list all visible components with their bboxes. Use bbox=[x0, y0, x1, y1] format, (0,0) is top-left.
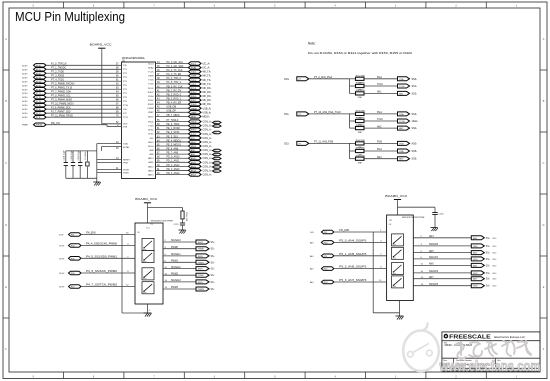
svg-text:R158 0R0: R158 0R0 bbox=[356, 118, 366, 120]
svg-text:SCH‹: SCH‹ bbox=[59, 246, 65, 248]
wire branch vertical group 3 bbox=[349, 143, 351, 158]
title block bbox=[442, 332, 540, 372]
wire net PGA to off-page connector bbox=[364, 148, 417, 153]
svg-text:R156 0R0: R156 0R0 bbox=[356, 111, 366, 113]
resistor R158 (DNF) / R159 bbox=[350, 118, 366, 127]
svg-text:USB_DM: USB_DM bbox=[167, 107, 177, 109]
svg-text:VDD: VDD bbox=[123, 124, 128, 126]
svg-text:AN12: AN12 bbox=[148, 165, 154, 168]
svg-text:AN3: AN3 bbox=[377, 156, 382, 159]
wire RESET to U1 pin 13 bbox=[97, 158, 131, 162]
resistor R154 (DNF) / R155 bbox=[350, 83, 366, 92]
svg-text:PWM1: PWM1 bbox=[171, 261, 179, 263]
svg-text:MDIO: MDIO bbox=[191, 116, 197, 118]
svg-text:CON_A‹: CON_A‹ bbox=[203, 161, 212, 164]
wire and off-page connector, U1 right pin 89 net PD_1_AN11 bbox=[148, 160, 211, 165]
svg-text:USBP: USBP bbox=[191, 112, 197, 114]
svg-text:SCK«: SCK« bbox=[22, 97, 28, 99]
wire and off-page connector, U1 right pin 80 net PE_0_TXD2 bbox=[148, 124, 212, 128]
wire and off-page connector, U1 right pin 46 net USB_DP bbox=[148, 111, 212, 115]
wire U3 GND pin to ground bbox=[399, 301, 401, 317]
wire and off-page connector, U1 right pin 35 net PC_1_I2C_SDA bbox=[148, 65, 210, 70]
svg-text:13aC‹: 13aC‹ bbox=[412, 120, 419, 123]
wire and off-page connector, U1 right pin 82 net PE_2_SCK1 bbox=[148, 132, 212, 136]
wire net TCLK to off-page connector bbox=[364, 84, 417, 88]
off-page connector and wire, U2 left pin 4 net P4_4_SS0/SCK0_PWM0 bbox=[59, 244, 135, 248]
svg-text:PWM3: PWM3 bbox=[171, 287, 179, 289]
svg-text:CON_A‹: CON_A‹ bbox=[203, 137, 212, 140]
svg-text:mux: mux bbox=[393, 273, 396, 275]
off-page connector and wire, U2 left pin 7 net P4_5_SS1/SD0_PWM1 bbox=[59, 256, 135, 260]
svg-text:VDDR: VDDR bbox=[123, 170, 129, 172]
ground (U2) bbox=[144, 313, 152, 317]
svg-text:SS‹: SS‹ bbox=[211, 242, 215, 244]
wire enable rail to ground (U2) bbox=[122, 235, 148, 314]
svg-text:mux: mux bbox=[143, 278, 146, 280]
svg-text:CON_A‹: CON_A‹ bbox=[203, 169, 212, 172]
resistor R164 10K bbox=[181, 208, 187, 222]
svg-text:PT_11_AN3_PGB: PT_11_AN3_PGB bbox=[314, 141, 334, 144]
svg-text:PE_1_RXD2: PE_1_RXD2 bbox=[167, 128, 181, 130]
svg-text:www.elecfans.com: www.elecfans.com bbox=[439, 359, 541, 375]
svg-text:SS4‹: SS4‹ bbox=[412, 127, 418, 130]
wire and off-page connector, U3 right pin 10 net SS2/LP2 bbox=[413, 271, 496, 275]
svg-text:SCL0: SCL0 bbox=[191, 64, 197, 66]
wire net PGA to off-page connector bbox=[364, 111, 417, 116]
svg-text:AN12: AN12 bbox=[191, 165, 197, 168]
svg-text:PWM0: PWM0 bbox=[171, 247, 179, 249]
svg-text:SS‹: SS‹ bbox=[486, 273, 490, 275]
wire and off-page connector, U1 right pin 43 net PB_3_RXD_1 bbox=[148, 98, 212, 102]
wire and off-page connector, U2 right pin 10 net PWM2 bbox=[163, 273, 215, 277]
svg-text:C: C bbox=[543, 162, 545, 165]
svg-text:TXD0: TXD0 bbox=[191, 80, 197, 82]
svg-text:SIGNAL2: SIGNAL2 bbox=[171, 266, 181, 269]
analog switch section S1 of U3 bbox=[392, 234, 404, 246]
svg-text:PB_0_RX_CLK: PB_0_RX_CLK bbox=[167, 86, 183, 88]
wire and off-page connector, U2 right pin 5 net SIGNAL1 bbox=[163, 253, 215, 258]
capacitor C102 bbox=[71, 149, 75, 178]
wire and off-page connector, U2 right pin 13 net PWM3 bbox=[163, 287, 215, 291]
off-page connector and wire, U1 left pin 60 net PT_3_RXD0 bbox=[22, 76, 128, 80]
svg-text:SS5‹: SS5‹ bbox=[412, 150, 418, 153]
svg-text:SCK«: SCK« bbox=[22, 85, 28, 87]
off-page connector group 1 input net PT_0_AN1_PGA bbox=[284, 76, 350, 81]
svg-text:SS2‹: SS2‹ bbox=[284, 143, 289, 145]
svg-text:PXI: PXI bbox=[71, 235, 75, 237]
power symbol BOARD_VCC (U3) bbox=[385, 194, 408, 203]
svg-text:PXI_EN0: PXI_EN0 bbox=[86, 233, 96, 235]
node GD mark bbox=[213, 125, 222, 128]
svg-text:SS‹: SS‹ bbox=[211, 256, 215, 258]
analog switch section S4 of U3 bbox=[392, 276, 404, 288]
wire and off-page connector, U1 right pin 91 net PD_3_AN13 bbox=[148, 168, 211, 173]
off-page connector and wire, U1 left pin 64 net PT_7_PWM2_SDA bbox=[22, 91, 128, 96]
svg-text:SS‹: SS‹ bbox=[211, 289, 215, 291]
svg-text:SS‹: SS‹ bbox=[486, 238, 490, 240]
svg-text:AS0‹: AS0‹ bbox=[412, 142, 418, 145]
svg-text:USBM: USBM bbox=[147, 108, 153, 110]
wire and off-page connector, U1 right pin 83 net PE_3_SS1 bbox=[150, 136, 212, 140]
svg-text:X1 4MHz: X1 4MHz bbox=[85, 151, 87, 160]
analog switch section S1 of U2 bbox=[142, 238, 154, 250]
svg-text:AD‹: AD‹ bbox=[310, 281, 314, 284]
wire net AN3 to off-page connector bbox=[364, 156, 417, 161]
svg-text:C160: C160 bbox=[439, 214, 445, 216]
svg-text:SCL0: SCL0 bbox=[148, 63, 154, 65]
capacitor C103 bbox=[78, 149, 82, 178]
off-page connector group 2 input net PT_10_AN2_PGA_TCLK bbox=[284, 111, 350, 116]
off-page connector and wire, U2 left pin 12 net P4_7_SS/TCK_PWM3 bbox=[59, 285, 135, 289]
svg-text:PJ_0_TTRCLK: PJ_0_TTRCLK bbox=[51, 64, 67, 66]
svg-text:RXD0: RXD0 bbox=[148, 96, 154, 98]
off-page connector and wire, U1 left pin 57 net PJ_0_TTRCLK bbox=[22, 64, 127, 68]
svg-text:AN7: AN7 bbox=[429, 276, 434, 279]
svg-text:BOARD_VCC: BOARD_VCC bbox=[90, 43, 113, 47]
svg-text:TXD2: TXD2 bbox=[148, 126, 154, 128]
wire VDDPLL to U1 pin 52 bbox=[102, 122, 128, 128]
svg-text:RXER: RXER bbox=[191, 104, 197, 106]
svg-text:CON_A‹: CON_A‹ bbox=[203, 121, 212, 124]
svg-text:AN4: AN4 bbox=[429, 235, 434, 238]
wire enable rail to ground (U3) bbox=[373, 232, 399, 313]
wire and off-page connector, U1 right pin 40 net PB_0_RX_CLK bbox=[148, 86, 212, 90]
svg-text:GD‹: GD‹ bbox=[493, 246, 497, 248]
wire and off-page connector, U1 right pin 81 net PE_1_RXD2 bbox=[148, 128, 212, 132]
wire and off-page connector, U2 right pin 6 net PWM1 bbox=[163, 260, 215, 264]
svg-text:MOSI: MOSI bbox=[191, 146, 197, 148]
svg-text:Electronics Europe Ltd: Electronics Europe Ltd bbox=[494, 335, 525, 339]
wire and off-page connector, U1 right pin 38 net PC_4_TXD_0 bbox=[148, 78, 211, 82]
svg-text:PT_10_PWM5_MOSI: PT_10_PWM5_MOSI bbox=[51, 104, 74, 106]
wire BOARD_VCC to U3 bbox=[398, 203, 436, 216]
MCU U1 bbox=[122, 57, 156, 178]
svg-text:SS‹: SS‹ bbox=[486, 253, 490, 255]
svg-text:R423 0R0: R423 0R0 bbox=[356, 125, 366, 127]
svg-text:PT_3_RXD0: PT_3_RXD0 bbox=[51, 76, 65, 78]
svg-text:PC_2_TX_CLK: PC_2_TX_CLK bbox=[167, 70, 183, 72]
svg-text:SDA0: SDA0 bbox=[191, 67, 197, 70]
wire net AN2 to off-page connector bbox=[364, 125, 417, 130]
svg-text:R154 0R0: R154 0R0 bbox=[356, 83, 366, 85]
svg-text:AD‹: AD‹ bbox=[310, 268, 314, 271]
svg-text:RXD1: RXD1 bbox=[148, 100, 154, 102]
svg-text:CON_A‹: CON_A‹ bbox=[203, 125, 212, 128]
svg-text:MDIO‹: MDIO‹ bbox=[203, 115, 210, 118]
svg-text:TCLK: TCLK bbox=[377, 84, 383, 86]
svg-text:PW_ON: PW_ON bbox=[51, 123, 60, 125]
svg-text:SS3‹: SS3‹ bbox=[412, 113, 418, 116]
wire and off-page connector, U1 right pin 34 net PC_0_I2C_SCL bbox=[148, 62, 210, 66]
svg-text:SIGN: SIGN bbox=[198, 282, 203, 284]
svg-text:RXER: RXER bbox=[148, 104, 154, 106]
svg-text:SCK«: SCK« bbox=[22, 81, 28, 83]
svg-text:GD‹: GD‹ bbox=[493, 238, 497, 240]
wire and off-page connector, U3 right pin 11 net AN6 bbox=[413, 263, 496, 268]
node GD mark bbox=[213, 162, 222, 165]
svg-text:SS‹: SS‹ bbox=[211, 275, 215, 277]
svg-text:SS2‹: SS2‹ bbox=[412, 92, 418, 95]
svg-text:CON_A‹: CON_A‹ bbox=[203, 141, 212, 144]
node GD mark bbox=[213, 131, 222, 134]
svg-text:CON_A‹: CON_A‹ bbox=[203, 129, 212, 132]
svg-text:AN5: AN5 bbox=[429, 250, 434, 253]
svg-text:GD‹: GD‹ bbox=[493, 259, 497, 261]
ground (U3) bbox=[396, 316, 404, 320]
svg-text:MII_TX‹: MII_TX‹ bbox=[203, 83, 212, 86]
svg-text:D: D bbox=[543, 224, 545, 227]
svg-text:AD‹: AD‹ bbox=[310, 241, 314, 244]
off-page connector and wire, U2 left pin 9 net P4_6_SS/SCK_PWM2 bbox=[59, 271, 135, 275]
svg-text:RXD2: RXD2 bbox=[148, 130, 154, 132]
svg-text:TXEN: TXEN bbox=[148, 76, 154, 78]
wire and off-page connector, U1 right pin 86 net PE_6_AN8 bbox=[149, 147, 211, 152]
ground (R164/C155) bbox=[179, 230, 187, 234]
svg-text:SCK«: SCK« bbox=[22, 101, 28, 103]
svg-text:PD_1_AN11: PD_1_AN11 bbox=[167, 160, 180, 163]
svg-text:XTAL: XTAL bbox=[123, 143, 129, 146]
wire and off-page connector, U1 right pin 45 net USB_DM bbox=[147, 107, 211, 111]
svg-text:PWM2: PWM2 bbox=[171, 273, 179, 275]
svg-text:PD_4_AN14: PD_4_AN14 bbox=[167, 172, 181, 175]
svg-text:D: D bbox=[5, 224, 7, 227]
svg-text:SS‹: SS‹ bbox=[211, 262, 215, 264]
svg-text:PT_TRCLK: PT_TRCLK bbox=[167, 120, 179, 122]
wire and off-page connector, U1 right pin 44 net PB_4_RX_ER bbox=[148, 102, 212, 106]
ground (oscillator) bbox=[93, 182, 101, 186]
svg-text:PGA: PGA bbox=[399, 150, 404, 153]
off-page connector and wire, U3 left pin 12 net P5_3_AN7_SS3/P3 bbox=[310, 279, 387, 284]
svg-text:PC_4_TXD_0: PC_4_TXD_0 bbox=[167, 78, 182, 80]
svg-text:TCLK: TCLK bbox=[191, 72, 197, 74]
svg-text:TXD2: TXD2 bbox=[191, 126, 197, 128]
svg-text:SN74CBTLV3257PWR: SN74CBTLV3257PWR bbox=[402, 217, 425, 219]
node GD mark bbox=[213, 153, 222, 156]
svg-text:AN1: AN1 bbox=[377, 91, 382, 94]
wire and off-page connector, U1 right pin 37 net PC_3_TX_EN bbox=[148, 74, 211, 78]
wire BOARD_VCC rail to U1 bbox=[101, 51, 103, 124]
svg-text:GD‹: GD‹ bbox=[493, 265, 497, 267]
off-page connector and wire, U1 left pin 67 net PT_10_PWM5_MOSI bbox=[22, 104, 129, 108]
svg-text:TXD1: TXD1 bbox=[148, 84, 154, 86]
svg-text:CON_A‹: CON_A‹ bbox=[203, 149, 212, 152]
svg-text:PT10: PT10 bbox=[123, 105, 129, 107]
svg-text:USB_A‹: USB_A‹ bbox=[203, 111, 212, 114]
svg-text:PB_3_RXD_1: PB_3_RXD_1 bbox=[167, 99, 182, 101]
svg-text:SS0‹: SS0‹ bbox=[412, 78, 418, 81]
svg-text:P4_4_SS0/SCK0_PWM0: P4_4_SS0/SCK0_PWM0 bbox=[86, 244, 118, 246]
svg-text:PC_1_I2C_SDA: PC_1_I2C_SDA bbox=[167, 65, 184, 68]
svg-text:R160 0R0: R160 0R0 bbox=[356, 140, 366, 142]
wire and off-page connector, U2 right pin 14 net SIGNAL3 bbox=[163, 279, 215, 284]
svg-text:SCK1: SCK1 bbox=[191, 134, 197, 136]
wire TEST to U1 pin 14 bbox=[97, 163, 129, 165]
svg-text:USB_A‹: USB_A‹ bbox=[203, 107, 212, 110]
svg-text:SIGN: SIGN bbox=[198, 256, 203, 258]
svg-text:BOARD_VCC: BOARD_VCC bbox=[385, 194, 408, 198]
wire and off-page connector, U1 right pin 39 net PC_5_TXD_1 bbox=[148, 82, 211, 86]
resistor R152 (0R0) / R153 bbox=[350, 76, 366, 85]
svg-text:SS‹: SS‹ bbox=[486, 265, 490, 267]
svg-text:C103 22pF: C103 22pF bbox=[78, 149, 80, 160]
svg-text:SS1‹: SS1‹ bbox=[284, 114, 289, 116]
wire and off-page connector, U2 right pin 2 net SIGNAL0 bbox=[163, 239, 215, 244]
wire net PGB to off-page connector bbox=[364, 141, 417, 145]
svg-text:CON_A‹: CON_A‹ bbox=[203, 133, 212, 136]
svg-text:PWM3: PWM3 bbox=[198, 289, 205, 291]
svg-text:RXD1: RXD1 bbox=[191, 100, 197, 102]
svg-text:RXD2: RXD2 bbox=[191, 130, 197, 132]
svg-text:PXI: PXI bbox=[324, 232, 328, 234]
svg-text:mux: mux bbox=[393, 286, 396, 288]
svg-text:CON_A‹: CON_A‹ bbox=[203, 145, 212, 148]
svg-text:SCK«: SCK« bbox=[22, 69, 28, 71]
svg-text:mux: mux bbox=[393, 258, 396, 260]
svg-text:PE_7_AN9: PE_7_AN9 bbox=[167, 152, 179, 155]
svg-text:RESET: RESET bbox=[123, 160, 131, 162]
svg-text:P4_7_SS/TCK_PWM3: P4_7_SS/TCK_PWM3 bbox=[86, 285, 118, 287]
svg-text:SCH‹: SCH‹ bbox=[59, 287, 65, 289]
svg-text:Do not fit R152, R154 or R421: Do not fit R152, R154 or R421 together w… bbox=[308, 51, 413, 55]
off-page connector and wire, U1 left pin 58 net PT_1_TMSDC bbox=[22, 68, 128, 72]
svg-text:SCK«: SCK« bbox=[22, 93, 28, 95]
svg-text:TRCK: TRCK bbox=[191, 122, 197, 124]
svg-text:PT_8_PWM3_SCL: PT_8_PWM3_SCL bbox=[51, 96, 71, 98]
wire net TCLK to off-page connector bbox=[364, 119, 418, 123]
node GD mark bbox=[213, 121, 222, 124]
svg-text:TCLK: TCLK bbox=[148, 72, 154, 74]
svg-text:CON_A‹: CON_A‹ bbox=[203, 153, 212, 156]
svg-text:PT_5_PWM0_RXCAN: PT_5_PWM0_RXCAN bbox=[51, 83, 75, 86]
wire and off-page connector, U3 right pin 6 net SS1/LP1 bbox=[413, 257, 496, 261]
node GD mark bbox=[213, 166, 222, 169]
svg-text:MCU Pin Multiplexing: MCU Pin Multiplexing bbox=[15, 9, 125, 24]
svg-text:BOARD_VCC: BOARD_VCC bbox=[135, 197, 158, 201]
analog switch section S3 of U2 bbox=[142, 268, 154, 280]
svg-text:PT_4_TXD1: PT_4_TXD1 bbox=[51, 80, 65, 82]
svg-text:PE_4_MISO1: PE_4_MISO1 bbox=[167, 140, 182, 142]
svg-text:SS1‹: SS1‹ bbox=[412, 85, 418, 88]
svg-text:SS‹: SS‹ bbox=[486, 259, 490, 261]
svg-text:SCK«: SCK« bbox=[22, 109, 28, 111]
off-page connector and wire, U3 left pin 4 net P5_0_AN4_SS0/P3 bbox=[310, 240, 387, 245]
wire and off-page connector, U3 right pin 13 net SS3/LP3 bbox=[413, 284, 496, 288]
svg-text:GD‹: GD‹ bbox=[310, 232, 314, 234]
wire and off-page connector, U1 right pin 84 net PE_4_MISO1 bbox=[148, 140, 212, 144]
svg-text:PB_1_RX_DV: PB_1_RX_DV bbox=[167, 90, 182, 92]
svg-text:SS0/: SS0/ bbox=[473, 246, 478, 248]
svg-text:PWM1: PWM1 bbox=[198, 262, 205, 264]
svg-text:SDA0: SDA0 bbox=[148, 66, 154, 69]
svg-text:MC9S12XEP100MAL: MC9S12XEP100MAL bbox=[122, 57, 146, 60]
svg-text:PE_5_MOSI1: PE_5_MOSI1 bbox=[167, 144, 182, 146]
svg-text:MII_TX‹: MII_TX‹ bbox=[203, 71, 212, 74]
svg-text:SCK«: SCK« bbox=[22, 89, 28, 91]
svg-text:PB_7_MDIO: PB_7_MDIO bbox=[167, 115, 180, 117]
svg-text:C102 22pF: C102 22pF bbox=[71, 149, 73, 160]
svg-text:TCLK: TCLK bbox=[377, 119, 383, 121]
analog mux U2 74HC4052 bbox=[135, 221, 173, 304]
svg-text:RXD0: RXD0 bbox=[191, 96, 197, 98]
wire net PGA to off-page connector bbox=[364, 76, 417, 81]
svg-text:SS0‹: SS0‹ bbox=[284, 79, 289, 81]
svg-text:Note:: Note: bbox=[308, 42, 316, 46]
wire and off-page connector, U1 right pin 88 net PD_0_AN10 bbox=[148, 156, 211, 161]
svg-text:mux: mux bbox=[143, 261, 146, 263]
svg-text:3V3‹: 3V3‹ bbox=[59, 235, 64, 237]
svg-text:PT_0_AN1_PGA: PT_0_AN1_PGA bbox=[314, 76, 332, 79]
svg-text:TXD1: TXD1 bbox=[191, 84, 197, 86]
off-page connector and wire, U1 left pin 62 net PT_5_PWM0_RXCAN bbox=[22, 83, 128, 88]
svg-text:TXD0: TXD0 bbox=[148, 80, 154, 82]
wire and off-page connector, U1 right pin 36 net PC_2_TX_CLK bbox=[148, 70, 211, 74]
svg-text:PD_3_AN13: PD_3_AN13 bbox=[167, 168, 181, 171]
wire and off-page connector, U1 right pin 55 net PT_TRCLK bbox=[148, 120, 212, 124]
svg-text:SCK«: SCK« bbox=[22, 65, 28, 67]
svg-text:PT_2_TXD0: PT_2_TXD0 bbox=[51, 72, 65, 74]
svg-text:R152 0R0: R152 0R0 bbox=[356, 76, 366, 78]
svg-text:PWM0: PWM0 bbox=[198, 249, 205, 251]
svg-text:RCLK: RCLK bbox=[191, 88, 197, 90]
note text bbox=[308, 42, 413, 55]
svg-text:MISO: MISO bbox=[148, 142, 154, 144]
svg-text:P5_3_AN7_SS3/P3: P5_3_AN7_SS3/P3 bbox=[339, 279, 367, 282]
svg-text:TRCK: TRCK bbox=[148, 122, 154, 124]
svg-text:SCH‹: SCH‹ bbox=[59, 258, 65, 260]
svg-text:CON_A‹: CON_A‹ bbox=[203, 165, 212, 168]
svg-text:PT_11_PWM_TRIG0: PT_11_PWM_TRIG0 bbox=[51, 116, 74, 118]
node GD mark bbox=[213, 170, 222, 173]
svg-text:USBP: USBP bbox=[148, 112, 154, 114]
off-page connector group 3 input net PT_11_AN3_PGB bbox=[284, 141, 350, 146]
svg-text:RCLK: RCLK bbox=[148, 88, 154, 90]
wire and off-page connector, U3 right pin 14 net AN7 bbox=[413, 276, 496, 281]
wire oscillator to ground bbox=[96, 151, 98, 182]
svg-text:PT_1_TMSDC: PT_1_TMSDC bbox=[51, 68, 66, 70]
svg-text:SN74CBTLV3257PWR: SN74CBTLV3257PWR bbox=[151, 221, 174, 223]
svg-text:P5_0_AN4_SS0/P3: P5_0_AN4_SS0/P3 bbox=[339, 240, 367, 243]
svg-text:GD‹: GD‹ bbox=[493, 273, 497, 275]
svg-text:PB_4_RX_ER: PB_4_RX_ER bbox=[167, 103, 182, 105]
svg-text:I2C_A‹: I2C_A‹ bbox=[203, 67, 211, 70]
svg-text:PT_10_AN2_PGA_TCLK: PT_10_AN2_PGA_TCLK bbox=[314, 111, 341, 114]
svg-text:SS3/: SS3/ bbox=[473, 286, 478, 288]
svg-text:MDIO: MDIO bbox=[148, 116, 154, 118]
svg-text:PT_7_PWM2_SDA: PT_7_PWM2_SDA bbox=[51, 91, 71, 94]
analog switch section S3 of U3 bbox=[392, 263, 404, 275]
wire EXTAL to U1 pin 23 bbox=[101, 146, 130, 151]
off-page connector and wire, U3 left pin 9 net P5_2_AN6_SS2/P3 bbox=[310, 266, 387, 271]
svg-text:MII_RX‹: MII_RX‹ bbox=[203, 87, 212, 90]
resistor R162 (DNF) / R163 bbox=[350, 148, 366, 157]
analog switch section S4 of U2 bbox=[142, 282, 154, 294]
svg-text:PE_3_SS1: PE_3_SS1 bbox=[167, 136, 179, 138]
svg-text:MII_RX‹: MII_RX‹ bbox=[203, 103, 212, 106]
svg-text:PWM2: PWM2 bbox=[198, 275, 205, 277]
analog switch section S2 of U3 bbox=[392, 247, 404, 259]
svg-text:C155: C155 bbox=[174, 224, 180, 226]
off-page connector and wire, U1 left pin 59 net PT_2_TXD0 bbox=[22, 72, 128, 76]
wire VSSR to U1 pin 40 bbox=[97, 173, 129, 175]
svg-text:SCK«: SCK« bbox=[22, 113, 28, 115]
wire and off-page connector, U2 right pin 3 net PWM0 bbox=[163, 247, 215, 251]
wire oscillator top rail bbox=[66, 150, 97, 152]
svg-text:PXI_ENP: PXI_ENP bbox=[339, 230, 349, 232]
svg-text:AN10: AN10 bbox=[148, 157, 154, 160]
svg-text:SS‹: SS‹ bbox=[486, 246, 490, 248]
svg-text:PGA: PGA bbox=[399, 113, 404, 116]
svg-text:PGA: PGA bbox=[377, 111, 382, 114]
